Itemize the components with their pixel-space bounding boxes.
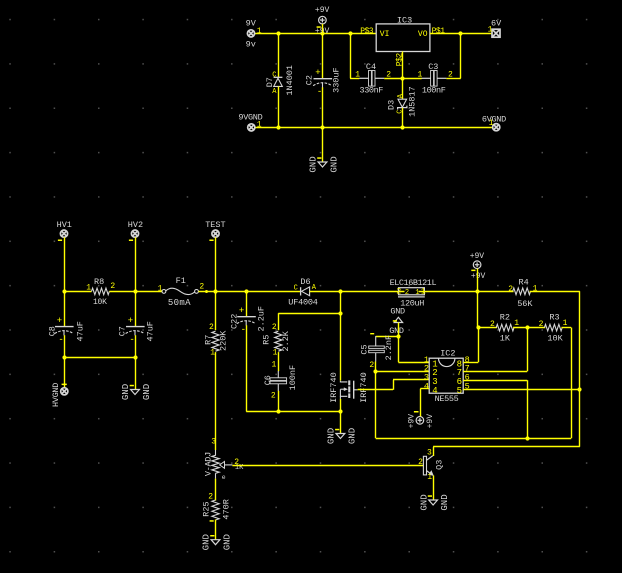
- wire HV ground rail: [64, 357, 135, 359]
- svg-text:4: 4: [432, 386, 437, 396]
- svg-text:R25: R25: [201, 501, 211, 516]
- svg-text:IRF740: IRF740: [329, 372, 339, 403]
- node junction D6 right: [338, 289, 342, 293]
- node F1 pin2 stub: [205, 290, 208, 293]
- wire TEST drop: [215, 237, 217, 291]
- wire D3 bottom: [402, 108, 404, 127]
- wire rail TEST-C22: [216, 291, 247, 293]
- svg-text:1: 1: [257, 27, 262, 36]
- svg-text:C8: C8: [47, 326, 57, 336]
- wire HV1 drop: [64, 237, 66, 291]
- svg-text:-: -: [241, 325, 246, 335]
- terminal pad HV2: [131, 230, 138, 237]
- capacitor C5 2.2nF: [376, 336, 399, 338]
- svg-text:6V: 6V: [491, 18, 502, 28]
- wire pin6 THR: [463, 380, 527, 382]
- supply +9V symbol at IC2 pin4: [416, 417, 424, 425]
- svg-text:2: 2: [405, 289, 409, 297]
- wire R2-R3: [513, 327, 545, 329]
- supply +9V symbol right: [473, 261, 481, 269]
- svg-text:1: 1: [488, 25, 493, 34]
- wire net 9V top rail: [255, 33, 377, 35]
- svg-text:+9V: +9V: [470, 252, 485, 261]
- node junction HV2 rail: [133, 289, 137, 293]
- svg-text:C22: C22: [229, 314, 239, 329]
- diode D7 wire top: [278, 33, 280, 77]
- wire Q3 emitter: [433, 476, 435, 501]
- svg-text:C2: C2: [305, 75, 315, 85]
- svg-text:3: 3: [427, 449, 432, 458]
- wire net 9VGND bottom rail: [255, 127, 492, 129]
- resistor R25 470R: [212, 500, 219, 520]
- node junction THR rail: [525, 436, 529, 440]
- svg-text:2: 2: [396, 287, 401, 296]
- capacitor C3 100nF: [431, 71, 434, 87]
- node junction D3/GND rail: [400, 125, 404, 129]
- svg-text:2: 2: [271, 392, 276, 401]
- svg-text:R3: R3: [549, 312, 559, 322]
- svg-text:9v: 9v: [246, 40, 256, 50]
- svg-text:47uF: 47uF: [75, 321, 85, 341]
- wire D7 bottom: [278, 86, 280, 127]
- resistor R3 10K: [544, 324, 562, 331]
- wire mosfet drain riser: [340, 291, 342, 380]
- wire TRIG drop: [375, 371, 377, 438]
- diode D3 1N5817: [402, 78, 404, 99]
- svg-text:1: 1: [489, 119, 494, 128]
- node junction D7/GND rail: [276, 125, 280, 129]
- svg-text:56K: 56K: [517, 299, 533, 309]
- node junction C3 riser: [458, 31, 462, 35]
- resistor R7 220K: [215, 291, 217, 330]
- terminal pad 6VGND: [493, 124, 500, 131]
- svg-text:220K: 220K: [219, 330, 229, 351]
- svg-text:HVGND: HVGND: [51, 383, 61, 407]
- wire C2 bottom: [322, 87, 324, 127]
- wire mosfet source: [340, 399, 342, 412]
- node junction C8 gnd: [62, 355, 66, 359]
- terminal HVGND: [64, 358, 66, 388]
- svg-text:IC2: IC2: [440, 349, 455, 359]
- svg-text:+9V: +9V: [471, 272, 486, 281]
- wire HV rail: [64, 291, 92, 293]
- terminal pad TEST: [212, 230, 219, 237]
- svg-text:GND: GND: [419, 494, 429, 510]
- node junction C2/+9V rail: [320, 31, 324, 35]
- node junction TEST rail: [213, 289, 217, 293]
- svg-text:IC3: IC3: [397, 15, 412, 25]
- svg-text:C6: C6: [263, 375, 273, 385]
- svg-text:+: +: [57, 316, 62, 326]
- svg-text:Q3: Q3: [435, 460, 445, 470]
- svg-text:D7: D7: [265, 77, 275, 87]
- svg-text:GND: GND: [121, 384, 131, 400]
- fuse F1 50mA: [162, 290, 166, 294]
- capacitor C7 47UF: [135, 291, 137, 326]
- ground GND below C7: [135, 358, 137, 390]
- svg-text:UF4004: UF4004: [288, 298, 318, 308]
- svg-text:P$1: P$1: [432, 27, 446, 36]
- node junction R2/R3: [525, 325, 529, 329]
- transistor Q3: [423, 456, 426, 475]
- svg-text:F1: F1: [176, 276, 186, 286]
- inductor L1 ELC16B121L 120uH: [340, 291, 404, 293]
- node junction C6 gnd rail: [276, 409, 280, 413]
- svg-text:GND: GND: [389, 326, 404, 336]
- svg-text:3: 3: [211, 438, 216, 447]
- ground GND below mosfet: [340, 412, 342, 434]
- svg-text:GND: GND: [223, 534, 233, 550]
- svg-text:6VGND: 6VGND: [482, 114, 506, 124]
- capacitor C22 2.2uF: [246, 291, 248, 316]
- svg-text:GND: GND: [142, 384, 152, 400]
- wire pot to R25: [215, 479, 217, 501]
- svg-text:C4: C4: [366, 62, 376, 72]
- node junction P$2/C4/C3/D3: [400, 76, 404, 80]
- terminal pad 9VGND: [248, 124, 255, 131]
- svg-text:GND: GND: [440, 494, 450, 510]
- svg-text:+9V: +9V: [426, 414, 435, 429]
- svg-text:5: 5: [457, 386, 462, 396]
- svg-text:V-ADJ: V-ADJ: [204, 452, 214, 476]
- svg-text:GND: GND: [202, 534, 212, 550]
- svg-text:2: 2: [209, 323, 214, 332]
- node junction HV1 rail: [62, 289, 66, 293]
- wire pin8 VCC: [463, 362, 478, 364]
- wire +9V stub: [322, 24, 324, 34]
- svg-text:2: 2: [508, 285, 513, 294]
- svg-text:+: +: [239, 306, 244, 316]
- svg-text:1: 1: [533, 285, 538, 294]
- node junction C22 rail: [244, 289, 248, 293]
- svg-text:R7: R7: [204, 335, 214, 345]
- svg-text:GND: GND: [347, 428, 357, 444]
- wire IC3 output: [430, 33, 491, 35]
- wire inductor right: [419, 291, 478, 293]
- node junction C2/GND rail: [320, 125, 324, 129]
- svg-text:NE555: NE555: [435, 394, 459, 404]
- capacitor C2 330uF: [314, 78, 333, 80]
- svg-text:GND: GND: [390, 307, 405, 317]
- capacitor C4 330nF: [369, 71, 372, 87]
- ground GND top section: [322, 127, 324, 162]
- regulator IC3: [376, 24, 430, 52]
- timer IC2 NE555: [429, 358, 463, 393]
- ground GND below Q3: [429, 500, 438, 505]
- svg-text:2: 2: [272, 323, 277, 332]
- svg-text:47uF: 47uF: [145, 321, 155, 341]
- svg-text:e: e: [222, 474, 226, 481]
- terminal pad HV1: [60, 230, 67, 237]
- wire C5 bottom: [375, 362, 377, 372]
- wire CTRL to Q3: [433, 446, 580, 448]
- wire D6-node: [310, 291, 341, 293]
- resistor R8 10K: [92, 288, 110, 295]
- wire C3 left: [402, 78, 421, 80]
- svg-text:100nF: 100nF: [288, 365, 298, 391]
- svg-text:1: 1: [86, 284, 91, 293]
- svg-text:C7: C7: [117, 326, 127, 336]
- svg-text:330nF: 330nF: [360, 86, 384, 96]
- node junction D7/9V rail: [276, 31, 280, 35]
- supply +9V symbol top: [319, 16, 327, 24]
- wire +9V drop: [477, 269, 479, 328]
- ground GND below R25: [211, 540, 220, 545]
- capacitor C2 wire top: [322, 33, 324, 78]
- svg-text:2: 2: [369, 361, 374, 370]
- svg-text:1: 1: [427, 473, 432, 482]
- capacitor C6 100nF: [270, 378, 287, 381]
- svg-text:2: 2: [208, 493, 213, 502]
- resistor R5 2.2K: [275, 331, 282, 351]
- wire C3 right riser: [446, 78, 460, 80]
- wire C6 bottom: [278, 391, 280, 412]
- node junction CTRL pin5: [577, 387, 581, 391]
- wire wiper to Q3 base: [232, 465, 423, 467]
- wire rail C22-D6: [246, 291, 301, 293]
- svg-text:1: 1: [273, 348, 278, 357]
- svg-text:VO: VO: [418, 30, 428, 39]
- resistor R4 56K: [477, 291, 513, 293]
- svg-text:R5: R5: [262, 334, 272, 344]
- svg-text:9V: 9V: [246, 19, 257, 29]
- svg-text:R4: R4: [519, 278, 529, 288]
- terminal pad HVGND: [61, 388, 68, 395]
- diode D6 UF4004: [300, 287, 302, 295]
- svg-text:+9V: +9V: [315, 6, 330, 15]
- svg-text:470R: 470R: [222, 499, 232, 519]
- svg-text:1N5817: 1N5817: [408, 86, 418, 117]
- svg-text:330uF: 330uF: [332, 67, 342, 93]
- node junction C5 top: [396, 334, 400, 338]
- wire R5-C6: [278, 352, 280, 371]
- potentiometer V-ADJ 1K: [215, 352, 217, 450]
- svg-text:-: -: [317, 87, 322, 97]
- svg-text:50mA: 50mA: [168, 298, 191, 308]
- svg-text:-: -: [129, 335, 134, 345]
- node junction VCC/R2: [476, 325, 480, 329]
- svg-text:2.2nF: 2.2nF: [384, 335, 394, 361]
- svg-text:4: 4: [424, 381, 429, 391]
- wire +9V to pin4: [420, 389, 422, 417]
- wire C7 bottom: [135, 335, 137, 358]
- node junction +9V rail: [475, 289, 479, 293]
- svg-text:GND: GND: [330, 156, 340, 172]
- diode D7 1N4001: [274, 76, 283, 78]
- wire R25 bottom: [215, 520, 217, 540]
- svg-text:2: 2: [539, 320, 544, 329]
- node junction R5 tap: [338, 311, 342, 315]
- wire P$2 drop: [402, 52, 404, 79]
- wire gnd-pin1: [398, 323, 400, 363]
- svg-text:TEST: TEST: [205, 220, 225, 230]
- wire C8 bottom: [64, 335, 66, 358]
- resistor R2 1K: [478, 327, 497, 329]
- wire R3 right: [561, 327, 571, 329]
- wire C22 bottom: [246, 325, 248, 411]
- svg-text:1: 1: [415, 289, 419, 297]
- svg-text:+: +: [315, 68, 320, 78]
- node junction C4 drop: [348, 31, 352, 35]
- node junction mosfet source gnd: [338, 409, 342, 413]
- wire R5 tap: [278, 313, 340, 315]
- wire R4 right: [530, 291, 580, 293]
- svg-text:2: 2: [199, 283, 204, 292]
- svg-text:2.2K: 2.2K: [281, 330, 291, 351]
- svg-text:2: 2: [490, 320, 495, 329]
- wire F1-TEST: [198, 291, 215, 293]
- svg-text:R8: R8: [94, 277, 104, 287]
- svg-text:VI: VI: [380, 30, 390, 39]
- svg-text:P$3: P$3: [360, 27, 374, 36]
- terminal pad 6V: [492, 29, 500, 37]
- capacitor C8 47UF: [64, 291, 66, 326]
- svg-text:C5: C5: [359, 344, 369, 354]
- svg-text:GND: GND: [327, 428, 337, 444]
- svg-text:C3: C3: [428, 62, 438, 72]
- wire HV2 drop: [135, 237, 137, 291]
- svg-text:1N4001: 1N4001: [285, 65, 295, 96]
- wire C4 right: [384, 78, 402, 80]
- svg-text:D6: D6: [300, 277, 310, 287]
- svg-text:HV1: HV1: [57, 220, 72, 230]
- svg-text:GND: GND: [309, 156, 319, 172]
- wire C4 drop: [350, 33, 352, 78]
- svg-text:1: 1: [272, 361, 277, 370]
- svg-text:1: 1: [257, 121, 262, 130]
- svg-text:1: 1: [355, 71, 360, 80]
- wire TRIG to pin2: [376, 371, 430, 373]
- svg-text:10K: 10K: [547, 334, 563, 344]
- svg-text:-: -: [58, 335, 63, 345]
- node junction C7 gnd: [133, 355, 137, 359]
- svg-text:2: 2: [418, 458, 423, 467]
- transistor Q1 IRF740 mosfet: [340, 380, 357, 399]
- wire mosfet gate: [358, 389, 393, 391]
- svg-text:1: 1: [210, 348, 215, 357]
- svg-text:1: 1: [158, 284, 163, 293]
- svg-text:+: +: [128, 316, 133, 326]
- wire Q3 collector: [433, 447, 435, 456]
- terminal pad 9V: [247, 30, 254, 37]
- svg-text:R2: R2: [500, 312, 510, 322]
- svg-text:D3: D3: [387, 100, 397, 110]
- svg-text:IRF740: IRF740: [359, 372, 369, 403]
- wire pin7 DIS: [463, 371, 527, 373]
- svg-text:+9V: +9V: [407, 414, 416, 429]
- svg-text:10K: 10K: [93, 298, 107, 307]
- svg-text:1K: 1K: [500, 334, 511, 344]
- wire pin5 CTRL: [463, 389, 580, 391]
- wire HV2-F1: [135, 291, 162, 293]
- node junction TRIG: [373, 369, 377, 373]
- svg-text:2: 2: [110, 282, 115, 291]
- svg-text:100nF: 100nF: [422, 86, 446, 96]
- svg-text:C: C: [294, 284, 298, 292]
- svg-text:2.2uF: 2.2uF: [257, 306, 267, 332]
- svg-text:HV2: HV2: [128, 220, 143, 230]
